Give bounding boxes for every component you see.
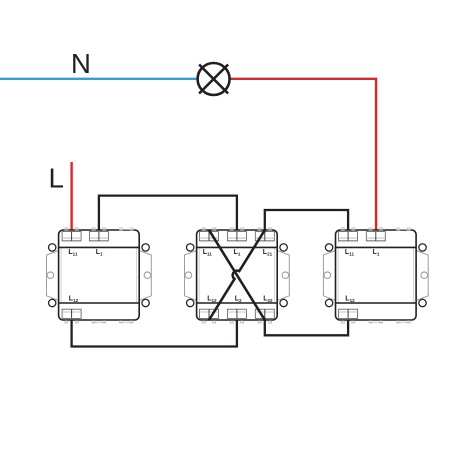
svg-text:N: N — [71, 48, 91, 79]
svg-text:L: L — [49, 163, 64, 194]
